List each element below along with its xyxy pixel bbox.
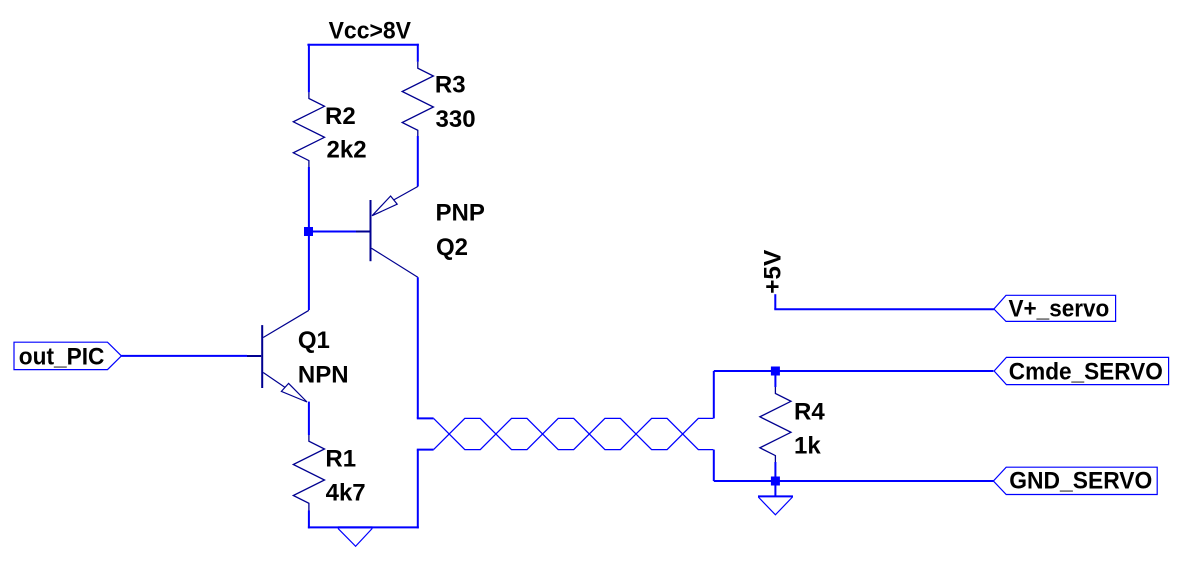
svg-text:R4: R4	[794, 398, 825, 425]
wire twist bottom-right down to GND	[713, 450, 715, 481]
transistor Q1 type label NPN	[298, 362, 349, 389]
svg-text:1k: 1k	[794, 432, 821, 459]
resistor R4	[760, 387, 791, 462]
port out_PIC text	[19, 344, 105, 371]
wire +5V stub	[774, 294, 776, 309]
resistor R1	[293, 435, 324, 511]
wire junction to Q2 base	[309, 231, 356, 233]
wire Q2 collector down to twisted pair	[417, 277, 419, 418]
svg-text:330: 330	[436, 106, 476, 133]
svg-text:4k7: 4k7	[326, 480, 366, 507]
svg-text:Q2: Q2	[436, 234, 468, 261]
svg-text:NPN: NPN	[298, 362, 349, 389]
resistor R2 label	[325, 103, 356, 130]
wire R4 bottom to junction J3	[774, 462, 776, 477]
resistor R2	[293, 92, 324, 167]
port out_PIC flag	[14, 342, 121, 369]
svg-text:Cmde_SERVO: Cmde_SERVO	[1009, 359, 1163, 386]
svg-text:+5V: +5V	[760, 250, 787, 294]
resistor R4 value 1k	[794, 432, 821, 459]
resistor R4 label	[794, 398, 825, 425]
twisted pair wire A	[434, 418, 714, 449]
wire J3 to ground	[774, 486, 776, 497]
transistor Q1 label	[298, 327, 330, 354]
wire GND_SERVO	[714, 480, 994, 482]
transistor Q1	[247, 310, 309, 402]
resistor R1 label	[325, 446, 356, 473]
wire left rail drop to R2	[308, 44, 310, 93]
ground right	[758, 496, 793, 514]
port GND_SERVO flag	[993, 467, 1157, 494]
twisted pair wire B	[434, 418, 714, 449]
resistor R3	[402, 62, 433, 136]
node +5V label	[760, 250, 787, 294]
wire junction J2 to R4	[774, 376, 776, 388]
transistor Q2	[356, 187, 418, 278]
svg-text:R2: R2	[325, 103, 356, 130]
svg-text:Q1: Q1	[298, 327, 330, 354]
resistor R3 label	[435, 72, 466, 99]
wire right rail drop to R3	[417, 44, 419, 62]
port Cmde_SERVO text	[1009, 359, 1163, 386]
transistor Q2 type label PNP	[436, 199, 485, 226]
wire Q1 emitter to R1	[308, 402, 310, 435]
svg-text:out_PIC: out_PIC	[19, 344, 105, 371]
ground mid	[338, 527, 372, 546]
wire stub twist bottom-left	[417, 449, 434, 451]
wire twisted pair lower-left to bottom rail	[417, 450, 419, 529]
wire R1 bottom to bottom rail	[308, 511, 310, 529]
port Cmde_SERVO flag	[994, 357, 1169, 384]
wire Cmde_SERVO	[714, 370, 994, 372]
resistor R1 value 4k7	[326, 480, 366, 507]
svg-text:GND_SERVO: GND_SERVO	[1009, 467, 1152, 494]
wire +5V to V+_servo	[774, 308, 994, 310]
port GND_SERVO text	[1009, 467, 1152, 494]
svg-text:PNP: PNP	[436, 199, 485, 226]
resistor R3 value 330	[436, 106, 476, 133]
wire top rail	[307, 44, 418, 46]
svg-text:2k2: 2k2	[327, 137, 367, 164]
port V+_servo text	[1009, 296, 1110, 323]
svg-text:R3: R3	[435, 72, 466, 99]
node junction J3	[771, 477, 780, 486]
node Vcc label	[329, 18, 411, 45]
svg-text:R1: R1	[325, 446, 356, 473]
wire twist top-right up to Cmde	[713, 371, 715, 418]
node junction J1	[304, 227, 313, 236]
wire stub twist top-left	[417, 417, 434, 419]
transistor Q2 label	[436, 234, 468, 261]
wire bottom rail	[308, 526, 419, 528]
port V+_servo flag	[994, 295, 1116, 321]
wire out_PIC to Q1 base	[121, 355, 247, 357]
wire R2 bottom to junction and Q1 collector	[308, 167, 310, 310]
wire R3 bottom to Q2 emitter	[417, 136, 419, 187]
svg-text:Vcc>8V: Vcc>8V	[329, 18, 411, 45]
node junction J2	[771, 367, 780, 376]
svg-text:V+_servo: V+_servo	[1009, 296, 1110, 323]
resistor R2 value 2k2	[327, 137, 367, 164]
